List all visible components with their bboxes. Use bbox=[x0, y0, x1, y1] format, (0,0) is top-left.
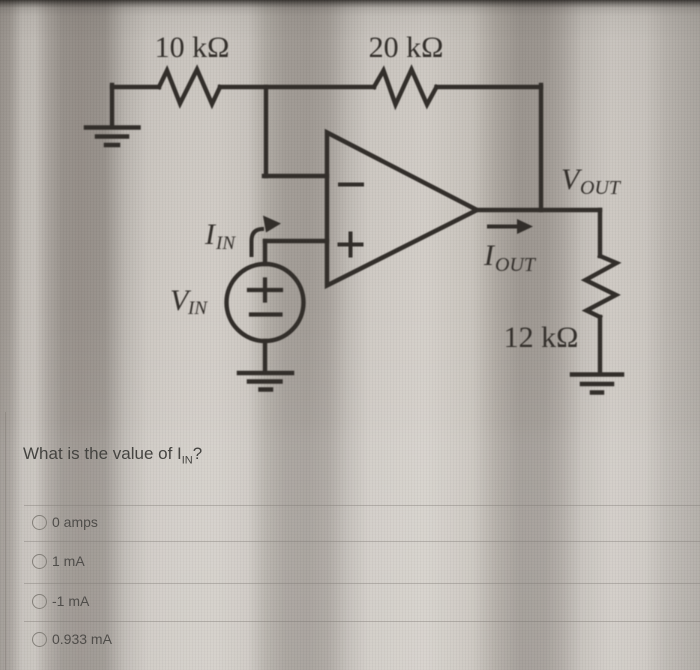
svg-text:20 kΩ: 20 kΩ bbox=[369, 31, 444, 64]
radio option 4 bbox=[32, 632, 47, 647]
separator line 4 bbox=[24, 621, 700, 622]
current arrow IIN head bbox=[263, 216, 281, 233]
svg-text:10 kΩ: 10 kΩ bbox=[155, 31, 230, 64]
separator line 2 bbox=[24, 541, 700, 542]
ground symbol under VIN bbox=[239, 373, 292, 390]
wire: VIN bottom to ground bbox=[263, 341, 267, 371]
card left border line bbox=[5, 412, 6, 670]
current arrow IIN curved bbox=[252, 229, 263, 255]
separator line 3 bbox=[24, 583, 700, 584]
svg-text:12 kΩ: 12 kΩ bbox=[504, 321, 579, 354]
op-amp plus input symbol bbox=[340, 234, 362, 256]
wire: output corner down to R3 bbox=[598, 210, 602, 256]
resistor R3 12k vertical zigzag bbox=[586, 256, 617, 317]
wire: op-amp output horizontal bbox=[477, 208, 600, 212]
svg-text:IN: IN bbox=[215, 233, 236, 254]
label R1 value 10 kOhm bbox=[155, 31, 230, 64]
separator line 1 bbox=[24, 505, 700, 506]
label R3 value 12 kOhm bbox=[504, 321, 579, 354]
wire: left vertical drop to ground bbox=[110, 85, 114, 126]
radio option 3 bbox=[32, 594, 47, 609]
resistor R2 20k zigzag bbox=[374, 70, 437, 105]
wire: R3 bottom to ground bbox=[598, 317, 602, 372]
svg-text:OUT: OUT bbox=[495, 254, 537, 276]
question text bbox=[23, 444, 202, 466]
wire: right feedback vertical down to output node bbox=[539, 85, 543, 210]
label IIN bbox=[204, 218, 236, 254]
ground symbol left bbox=[86, 128, 139, 146]
voltage source VIN circle bbox=[227, 264, 304, 341]
wire: inverting input horizontal into op-amp bbox=[264, 174, 327, 178]
wire: from + input corner down to VIN source bbox=[263, 241, 267, 264]
svg-text:OUT: OUT bbox=[580, 177, 622, 199]
wire: between R1 and R2 bbox=[220, 85, 374, 89]
op-amp minus input symbol bbox=[340, 183, 362, 187]
ground symbol under R3 bbox=[572, 375, 622, 393]
wire: inverting input vertical from top wire bbox=[264, 87, 268, 176]
VIN plus mark bbox=[249, 280, 281, 301]
label VOUT bbox=[561, 163, 622, 199]
radio option 2 bbox=[32, 554, 47, 569]
label VIN bbox=[170, 284, 208, 319]
resistor R1 10k zigzag bbox=[159, 70, 220, 105]
svg-text:IN: IN bbox=[187, 298, 208, 319]
wire: non-inverting input horizontal into op-amp bbox=[265, 239, 327, 243]
label IOUT bbox=[483, 239, 537, 276]
label R2 value 20 kOhm bbox=[369, 31, 444, 64]
VIN minus mark bbox=[251, 312, 281, 316]
op-amp U1 triangle bbox=[327, 133, 477, 286]
current arrow IOUT head bbox=[517, 219, 533, 234]
radio option 1 bbox=[32, 515, 47, 530]
wire: top-left horizontal from ground corner to R1 bbox=[112, 85, 159, 89]
wire: R2 to top-right corner bbox=[437, 85, 542, 89]
current arrow IOUT shaft bbox=[489, 225, 520, 229]
